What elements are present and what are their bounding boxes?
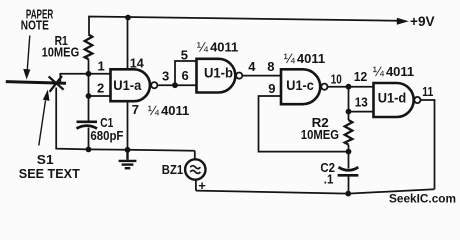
BZ1 tone symbol <box>190 166 200 169</box>
switch S1 contact stroke A <box>49 76 64 89</box>
U1-b output bubble <box>236 73 242 79</box>
op-amp U1-b NAND gate <box>197 59 236 93</box>
U1-a output bubble <box>151 82 157 88</box>
wire pin 1 <box>89 73 111 75</box>
node ground line junction <box>125 147 131 153</box>
wire pin 11 output to bottom rail <box>421 100 435 189</box>
node R2/C2/feedback junction <box>346 149 352 155</box>
buzzer BZ1 <box>185 159 205 179</box>
svg-text:¼4011: ¼4011 <box>284 51 325 66</box>
svg-text:13: 13 <box>355 94 368 109</box>
svg-text:7: 7 <box>132 102 139 117</box>
svg-text:.1: .1 <box>324 172 334 187</box>
capacitor C2 <box>338 167 359 175</box>
wire pin 13 <box>349 111 374 113</box>
node junction on rail (pin 14 tap) <box>125 15 131 21</box>
wire pin 14 <box>127 18 129 70</box>
wire node to node <box>88 74 90 96</box>
node pin2 junction <box>86 93 92 99</box>
wire contact to gate input node <box>60 74 88 83</box>
arrow S1 pointer <box>39 101 46 146</box>
wire buzzer to bottom rail <box>195 180 197 191</box>
svg-text:8: 8 <box>267 59 274 74</box>
svg-text:2: 2 <box>97 80 104 95</box>
U1-c output bubble <box>321 84 327 90</box>
wire node to C2 <box>348 152 350 169</box>
svg-text:S1: S1 <box>37 152 54 167</box>
svg-text:SeekIC.com: SeekIC.com <box>389 193 456 205</box>
node pin1 junction <box>86 71 92 77</box>
node pin 13 junction <box>346 109 352 115</box>
svg-text:U1-a: U1-a <box>113 77 141 93</box>
node C2 bottom rail junction <box>345 191 351 197</box>
svg-text:11: 11 <box>422 84 433 99</box>
node C1 ground junction <box>86 147 92 153</box>
svg-text:12: 12 <box>354 69 368 84</box>
wire pin 5 loop <box>175 61 197 85</box>
wire R2 to node <box>348 145 350 152</box>
svg-text:BZ1: BZ1 <box>162 162 183 177</box>
svg-text:680pF: 680pF <box>90 128 123 143</box>
paper sheet line <box>6 82 66 84</box>
svg-text:¼4011: ¼4011 <box>148 103 189 118</box>
svg-text:¼4011: ¼4011 <box>197 40 238 55</box>
svg-text:3: 3 <box>162 68 169 83</box>
op-amp U1-c NAND gate <box>281 69 320 104</box>
power +9V arrowhead <box>397 18 409 25</box>
wire pin 4 to pin 8 <box>242 75 281 77</box>
wire C1 bottom to ground line <box>88 128 90 150</box>
svg-text:10MEG: 10MEG <box>301 127 339 142</box>
node U1-b input junction <box>172 82 178 88</box>
op-amp U1-a NAND gate <box>111 69 150 101</box>
node pin 12 junction <box>346 84 352 90</box>
svg-text:SEE TEXT: SEE TEXT <box>19 166 80 181</box>
capacitor C1 <box>77 122 98 129</box>
svg-text:4: 4 <box>248 59 256 74</box>
wire pin 6 <box>175 84 197 86</box>
svg-text:+: + <box>198 178 206 193</box>
svg-text:9: 9 <box>268 81 275 96</box>
U1-d output bubble <box>414 97 420 103</box>
svg-text:U1-c: U1-c <box>286 77 314 93</box>
svg-text:1: 1 <box>98 58 105 73</box>
wire ground line to buzzer <box>194 151 196 160</box>
wire node down to C1 <box>88 96 90 121</box>
wire node to R2 <box>348 112 350 120</box>
svg-text:+9V: +9V <box>410 13 435 29</box>
wire lower contact to ground line <box>56 88 195 151</box>
svg-text:U1-b: U1-b <box>204 65 233 81</box>
arrow PAPER NOTE pointer <box>27 36 30 70</box>
svg-text:5: 5 <box>181 47 188 62</box>
wire pin 10 to pin 12 <box>328 86 374 88</box>
svg-text:¼4011: ¼4011 <box>373 64 414 79</box>
wire C2 to bottom rail <box>348 176 350 194</box>
wire pin 3 output <box>157 84 175 86</box>
svg-text:6: 6 <box>182 68 189 83</box>
svg-text:10MEG: 10MEG <box>42 45 80 60</box>
ground <box>119 150 137 168</box>
wire pin 9 with feedback to R2/C2 node <box>259 96 349 152</box>
wire bottom return rail <box>196 189 435 193</box>
resistor R1 <box>85 35 93 60</box>
wire pin 2 <box>89 95 111 97</box>
wire +9V supply rail <box>89 17 398 35</box>
resistor R2 <box>345 120 353 145</box>
wire R1 bottom to input node <box>88 59 90 74</box>
wire pin 7 <box>127 101 129 150</box>
switch S1 contact stroke B <box>50 76 62 92</box>
svg-text:NOTE: NOTE <box>21 17 49 32</box>
op-amp U1-d NAND gate <box>374 83 414 117</box>
wire 12 to 13 tie <box>348 87 350 112</box>
svg-text:U1-d: U1-d <box>378 89 407 105</box>
svg-text:10: 10 <box>331 72 342 87</box>
